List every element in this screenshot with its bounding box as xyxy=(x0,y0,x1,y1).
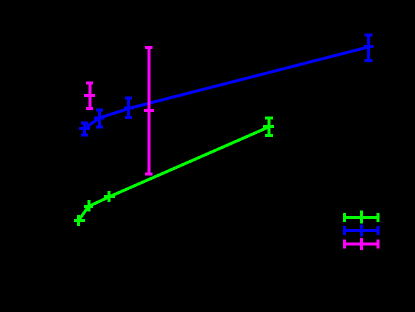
blue point P4 error bars with caps xyxy=(364,35,374,61)
blue series connecting line xyxy=(85,47,369,129)
green point G3 error bars xyxy=(104,191,115,202)
green series connecting line xyxy=(79,127,270,221)
green point G1 error bars xyxy=(74,215,85,226)
blue point P2 error bars with caps xyxy=(94,110,105,127)
magenta error bar M1 xyxy=(84,83,95,109)
green point G2 error bars xyxy=(84,200,93,212)
blue point P1 error bars with caps xyxy=(79,123,90,135)
magenta error bar M2 xyxy=(144,48,154,175)
legend blue sample xyxy=(343,225,380,237)
legend green sample xyxy=(343,211,380,224)
legend magenta sample xyxy=(343,238,380,250)
green point G4 error bars with caps xyxy=(263,118,274,136)
blue point P3 error bars with caps xyxy=(124,98,134,118)
